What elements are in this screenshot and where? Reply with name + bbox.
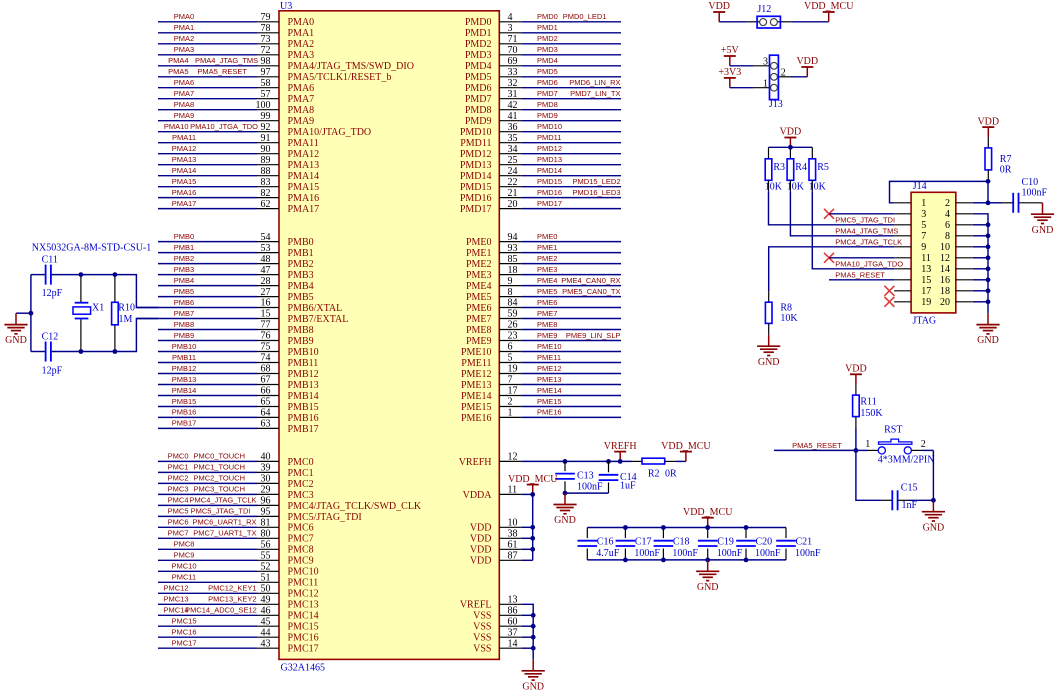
power port VDD <box>780 127 802 148</box>
svg-text:PMD7: PMD7 <box>537 89 558 98</box>
svg-text:100: 100 <box>256 100 271 111</box>
svg-text:PMC0: PMC0 <box>168 452 189 461</box>
svg-text:1: 1 <box>508 408 513 419</box>
svg-text:94: 94 <box>508 232 518 243</box>
svg-text:PME6: PME6 <box>466 303 492 314</box>
svg-text:PME8: PME8 <box>466 325 492 336</box>
svg-text:VDD_MCU: VDD_MCU <box>661 441 711 452</box>
svg-text:PME2: PME2 <box>466 259 492 270</box>
svg-text:9: 9 <box>921 242 926 253</box>
svg-text:75: 75 <box>261 342 271 353</box>
svg-text:C21: C21 <box>796 537 813 548</box>
ground GND symbol <box>922 500 945 533</box>
svg-text:PMC1: PMC1 <box>288 468 314 479</box>
svg-text:PME4: PME4 <box>537 276 557 285</box>
wire J14 even pins ground bus <box>973 203 988 313</box>
svg-text:PME16: PME16 <box>537 408 562 417</box>
U3 left pin 64 (PMB16) with wire and net label <box>158 408 319 424</box>
svg-text:84: 84 <box>508 298 518 309</box>
svg-text:C20: C20 <box>756 537 773 548</box>
U3 right pin 87 (VDD) with wire <box>470 551 521 567</box>
svg-text:PMD1: PMD1 <box>465 28 492 39</box>
svg-text:87: 87 <box>508 551 518 562</box>
junction dots VREFH net <box>563 459 623 464</box>
svg-text:69: 69 <box>508 56 518 67</box>
svg-text:PMA13: PMA13 <box>172 155 197 164</box>
push button RST pin numbers <box>865 439 926 450</box>
U3 right pin 23 (PME9) with wire <box>466 331 621 347</box>
svg-text:PMD16_LED3: PMD16_LED3 <box>573 188 621 197</box>
svg-text:PMB11: PMB11 <box>288 358 319 369</box>
svg-text:64: 64 <box>261 408 271 419</box>
svg-text:7: 7 <box>508 375 513 386</box>
svg-text:PMD5: PMD5 <box>465 72 492 83</box>
svg-text:PMA13: PMA13 <box>288 160 320 171</box>
svg-text:40: 40 <box>261 452 271 463</box>
wire VSS ground bus <box>521 604 533 659</box>
U3 right pin 24 (PMD14) with wire <box>460 166 621 182</box>
wire C14 bottom to C13 bottom <box>565 492 609 494</box>
svg-text:9: 9 <box>508 276 513 287</box>
U3 left pin 16 (PMB6/XTAL) with wire and net label <box>136 298 342 314</box>
svg-text:PMA2: PMA2 <box>174 34 194 43</box>
svg-text:VDD: VDD <box>708 1 730 12</box>
power port VDD <box>708 1 730 22</box>
svg-text:PME6: PME6 <box>537 298 557 307</box>
svg-text:17: 17 <box>508 386 518 397</box>
U3 right pin 5 (PME11) with wire <box>461 353 621 369</box>
svg-text:PMC3: PMC3 <box>168 485 189 494</box>
wire capacitor bank top bus <box>587 527 786 529</box>
U3 left pin 43 (PMC17) with wire and net label <box>158 638 319 654</box>
U3 right pin 86 (VSS) with wire <box>473 606 521 622</box>
svg-text:66: 66 <box>261 386 271 397</box>
svg-text:1uF: 1uF <box>620 480 636 491</box>
wire J12 to VDD_MCU <box>791 21 829 23</box>
U3 right pin 14 (VSS) with wire <box>473 638 521 654</box>
svg-text:GND: GND <box>5 335 27 346</box>
svg-text:PMA10_JTGA_TDO: PMA10_JTGA_TDO <box>835 260 903 269</box>
U3 left pin 88 (PMA14) with wire and net label <box>158 166 319 182</box>
svg-text:72: 72 <box>261 45 271 56</box>
svg-text:14: 14 <box>940 264 950 275</box>
svg-text:PMA0: PMA0 <box>288 17 315 28</box>
svg-text:PMB7: PMB7 <box>174 309 194 318</box>
U3 right pin 41 (PMD9) with wire <box>465 111 621 127</box>
svg-text:PMA3: PMA3 <box>174 45 194 54</box>
svg-text:70: 70 <box>508 45 518 56</box>
U3 right pin 70 (PMD3) with wire <box>465 45 621 61</box>
svg-text:PMD5: PMD5 <box>537 67 558 76</box>
svg-text:17: 17 <box>921 286 931 297</box>
svg-text:PMD3: PMD3 <box>537 45 558 54</box>
svg-text:GND: GND <box>758 357 780 368</box>
svg-text:100nF: 100nF <box>672 548 698 559</box>
svg-text:PME1: PME1 <box>537 243 557 252</box>
svg-text:100nF: 100nF <box>795 548 821 559</box>
svg-text:VDD: VDD <box>977 116 999 127</box>
wire R7 to J14 pins 1 2 and C10 <box>988 181 1002 203</box>
svg-text:C11: C11 <box>42 255 58 266</box>
capacitor C17 body <box>616 528 636 560</box>
svg-text:VDD_MCU: VDD_MCU <box>508 474 558 485</box>
svg-text:PMA14: PMA14 <box>172 166 197 175</box>
resistor R8 body <box>765 291 772 335</box>
svg-text:PMA8: PMA8 <box>174 100 194 109</box>
svg-text:77: 77 <box>261 320 271 331</box>
U3 left pin 67 (PMB13) with wire and net label <box>158 375 319 391</box>
svg-text:PMA9: PMA9 <box>174 111 194 120</box>
svg-text:78: 78 <box>261 23 271 34</box>
wire R11 to reset node <box>855 428 857 451</box>
svg-text:PMA5/TCLK1/RESET_b: PMA5/TCLK1/RESET_b <box>288 72 392 83</box>
svg-text:49: 49 <box>261 595 271 606</box>
svg-text:97: 97 <box>261 67 271 78</box>
svg-text:PMC0: PMC0 <box>288 457 314 468</box>
svg-text:10K: 10K <box>809 181 827 192</box>
svg-text:PMD11: PMD11 <box>460 138 491 149</box>
svg-text:48: 48 <box>261 254 271 265</box>
U3 right pin 37 (VSS) with wire <box>473 627 521 643</box>
svg-text:PMB2: PMB2 <box>174 254 194 263</box>
svg-text:GND: GND <box>1032 225 1054 236</box>
U3 left pin 15 (PMB7/EXTAL) with wire and net label <box>136 309 348 325</box>
svg-text:16: 16 <box>940 275 950 286</box>
resistor R7 body <box>985 137 992 181</box>
svg-text:PMC12: PMC12 <box>163 584 188 593</box>
svg-text:13: 13 <box>921 264 931 275</box>
svg-text:PME5_CAN0_TX: PME5_CAN0_TX <box>562 287 620 296</box>
svg-text:PMC4_JTAG_TCLK: PMC4_JTAG_TCLK <box>190 496 257 505</box>
U3 left pin 47 (PMB3) with wire and net label <box>158 265 314 281</box>
U3 right pin 69 (PMD4) with wire <box>465 56 621 72</box>
svg-text:PMD10: PMD10 <box>537 122 562 131</box>
svg-text:90: 90 <box>261 144 271 155</box>
svg-text:VDD_MCU: VDD_MCU <box>683 507 733 518</box>
svg-text:10K: 10K <box>787 181 805 192</box>
svg-text:1: 1 <box>763 78 768 89</box>
wire J14 pin1 loop to VDD node <box>890 181 989 202</box>
no-ERC cross J14 pin17 <box>884 286 894 296</box>
U3 right pin 10 (VDD) with wire <box>470 518 521 534</box>
U3 right pin 26 (PME8) with wire <box>466 320 621 336</box>
svg-text:12: 12 <box>508 452 518 463</box>
U3 left pin 91 (PMA11) with wire and net label <box>158 133 319 149</box>
svg-text:VDD: VDD <box>470 556 492 567</box>
svg-text:PMA14: PMA14 <box>288 171 320 182</box>
svg-text:PMC15: PMC15 <box>171 617 196 626</box>
U3 left pin 72 (PMA3) with wire and net label <box>158 45 314 61</box>
U3 left pin 48 (PMB2) with wire and net label <box>158 254 314 270</box>
U3 left pin 75 (PMB10) with wire and net label <box>158 342 319 358</box>
svg-text:PMD11: PMD11 <box>537 133 561 142</box>
svg-text:PMA5_RESET: PMA5_RESET <box>197 67 247 76</box>
svg-text:PMD12: PMD12 <box>537 144 562 153</box>
svg-text:19: 19 <box>921 297 931 308</box>
U3 right pin 21 (PMD16) with wire <box>460 188 621 204</box>
svg-text:PME0: PME0 <box>537 232 557 241</box>
svg-text:PMC8: PMC8 <box>174 540 195 549</box>
svg-text:32: 32 <box>508 78 518 89</box>
svg-text:52: 52 <box>261 562 271 573</box>
svg-text:12: 12 <box>940 253 950 264</box>
wire GND stub <box>16 312 31 314</box>
svg-text:PMD13: PMD13 <box>460 160 492 171</box>
svg-text:PMA5: PMA5 <box>168 67 188 76</box>
svg-text:PMA2: PMA2 <box>288 39 315 50</box>
svg-text:1: 1 <box>921 198 926 209</box>
svg-text:PME9: PME9 <box>466 336 492 347</box>
svg-text:100nF: 100nF <box>1022 188 1048 199</box>
svg-text:2: 2 <box>945 198 950 209</box>
svg-text:89: 89 <box>261 155 271 166</box>
power port +3V3 <box>718 67 741 88</box>
svg-text:28: 28 <box>261 276 271 287</box>
capacitor C14 body <box>599 461 619 493</box>
svg-text:PMC9: PMC9 <box>174 551 195 560</box>
svg-text:0R: 0R <box>665 468 677 479</box>
power port VREFH <box>604 441 637 462</box>
svg-text:51: 51 <box>261 573 271 584</box>
wire capacitor bank bottom bus <box>587 559 786 561</box>
U3 left pin 45 (PMC15) with wire and net label <box>158 616 319 632</box>
svg-text:8: 8 <box>508 287 513 298</box>
U3 right pin 7 (PME13) with wire <box>461 375 621 391</box>
svg-text:PMB5: PMB5 <box>174 287 194 296</box>
svg-text:61: 61 <box>508 540 518 551</box>
svg-text:PME2: PME2 <box>537 254 557 263</box>
no-ERC cross J14 pin11 <box>824 253 834 263</box>
svg-text:+3V3: +3V3 <box>718 67 741 78</box>
svg-text:PMA17: PMA17 <box>288 204 320 215</box>
wire XTAL bottom rail <box>31 351 45 353</box>
svg-text:PMA5_RESET: PMA5_RESET <box>835 271 885 280</box>
ground GND symbol <box>4 313 27 346</box>
capacitor C18 body <box>654 528 674 560</box>
svg-text:NX5032GA-8M-STD-CSU-1: NX5032GA-8M-STD-CSU-1 <box>32 242 151 253</box>
svg-text:59: 59 <box>508 309 518 320</box>
svg-text:PMD16: PMD16 <box>460 193 492 204</box>
svg-text:PMD12: PMD12 <box>460 149 492 160</box>
svg-text:VDD: VDD <box>470 545 492 556</box>
svg-text:PMC16: PMC16 <box>171 628 196 637</box>
junction dot C15 right <box>931 498 936 503</box>
power port VDD_MCU <box>508 474 558 495</box>
U3 right pin 42 (PMD8) with wire <box>465 100 621 116</box>
U3 left pin 80 (PMC7) with wire and net label <box>158 529 314 545</box>
svg-text:PMA15: PMA15 <box>288 182 320 193</box>
connector J13 body <box>753 55 791 99</box>
U3 left pin 89 (PMA13) with wire and net label <box>158 155 319 171</box>
U3 left pin 63 (PMB17) with wire and net label <box>158 419 319 435</box>
svg-text:PMC9: PMC9 <box>288 556 314 567</box>
wire XTAL top rail <box>31 274 45 276</box>
svg-text:88: 88 <box>261 166 271 177</box>
wire +5V to J13 pin3 <box>730 65 753 67</box>
svg-text:R4: R4 <box>795 162 807 173</box>
resistor R10 body <box>112 275 119 352</box>
svg-text:PMC7: PMC7 <box>288 534 314 545</box>
svg-text:PMD6: PMD6 <box>465 83 492 94</box>
svg-text:R10: R10 <box>118 303 135 314</box>
capacitor C10 body <box>1002 193 1043 213</box>
U3 right pin 12 (VREFH) with wire <box>459 452 522 468</box>
svg-text:PMD7: PMD7 <box>465 94 492 105</box>
resistor R5 body <box>809 147 816 191</box>
svg-text:VSS: VSS <box>473 644 491 655</box>
ground GND symbol <box>1031 203 1054 236</box>
U3 left pin 66 (PMB14) with wire and net label <box>158 386 319 402</box>
svg-text:18: 18 <box>508 265 518 276</box>
svg-text:35: 35 <box>508 133 518 144</box>
svg-text:7: 7 <box>921 231 926 242</box>
power port VDD <box>796 56 818 77</box>
power port +5V <box>721 45 740 66</box>
svg-text:PMD4: PMD4 <box>537 56 558 65</box>
power port VDD_MCU <box>683 507 733 528</box>
U3 left pin 74 (PMB11) with wire and net label <box>158 353 318 369</box>
U3 right pin 18 (PME3) with wire <box>466 265 621 281</box>
svg-text:PMC2: PMC2 <box>288 479 314 490</box>
svg-text:PMC5/JTAG_TDI: PMC5/JTAG_TDI <box>288 512 362 523</box>
junction dot R7 bottom <box>986 179 991 184</box>
U3 left pin 50 (PMC12) with wire and net label <box>158 584 319 600</box>
crystal X1 body <box>73 275 91 352</box>
svg-text:67: 67 <box>261 375 271 386</box>
U3 left pin 56 (PMC8) with wire and net label <box>158 540 314 556</box>
svg-text:58: 58 <box>261 78 271 89</box>
svg-text:PMC7: PMC7 <box>168 529 189 538</box>
U3 right pin 25 (PMD13) with wire <box>460 155 621 171</box>
svg-text:PMD3: PMD3 <box>465 50 492 61</box>
svg-text:22: 22 <box>508 177 518 188</box>
junction dot J14 pin2 node <box>986 200 991 205</box>
svg-text:PMA12: PMA12 <box>288 149 320 160</box>
svg-text:1: 1 <box>865 439 870 450</box>
svg-text:PMC12_KEY1: PMC12_KEY1 <box>208 584 256 593</box>
svg-text:36: 36 <box>508 122 518 133</box>
junction dots VDD bus <box>530 492 535 552</box>
svg-text:46: 46 <box>261 606 271 617</box>
U3 right pin 8 (PME5) with wire <box>466 287 621 303</box>
U3 left pin 54 (PMB0) with wire and net label <box>158 232 314 248</box>
svg-text:20: 20 <box>940 297 950 308</box>
svg-text:100nF: 100nF <box>634 548 660 559</box>
svg-text:C18: C18 <box>673 537 690 548</box>
U3 right pin 20 (PMD17) with wire <box>460 199 621 215</box>
power port VDD_MCU <box>661 441 711 462</box>
svg-text:41: 41 <box>508 111 518 122</box>
svg-text:PMD9: PMD9 <box>465 116 492 127</box>
svg-text:29: 29 <box>261 485 271 496</box>
wire VDD rail over R3 R4 R5 <box>769 146 813 148</box>
svg-text:PME3: PME3 <box>466 270 492 281</box>
svg-text:38: 38 <box>508 529 518 540</box>
svg-text:PMA17: PMA17 <box>172 199 197 208</box>
junction dot C13 bottom <box>563 491 568 496</box>
svg-text:PMB12: PMB12 <box>288 369 319 380</box>
capacitor C15 body <box>881 490 908 510</box>
svg-text:63: 63 <box>261 419 271 430</box>
svg-text:PMD15_LED2: PMD15_LED2 <box>573 177 621 186</box>
svg-text:PMB17: PMB17 <box>172 419 197 428</box>
svg-text:PMC1: PMC1 <box>168 463 189 472</box>
svg-text:PMC5_JTAG_TDI: PMC5_JTAG_TDI <box>835 216 895 225</box>
svg-text:VDD: VDD <box>796 56 818 67</box>
wire VDD to J12 <box>719 21 747 23</box>
svg-text:PME12: PME12 <box>537 364 562 373</box>
U3 right pin 9 (PME4) with wire <box>466 276 621 292</box>
U3 left pin 83 (PMA15) with wire and net label <box>158 177 319 193</box>
wire J14 pin9 to R8 net PMC4_JTAG_TCLK <box>769 247 894 291</box>
svg-text:76: 76 <box>261 331 271 342</box>
resistor R4 body <box>787 147 794 191</box>
svg-text:PMC11: PMC11 <box>172 573 196 582</box>
U3 right pin 59 (PME7) with wire <box>466 309 621 325</box>
svg-text:PME4: PME4 <box>466 281 492 292</box>
svg-text:2: 2 <box>921 439 926 450</box>
svg-text:R7: R7 <box>1000 154 1012 165</box>
svg-text:PME10: PME10 <box>461 347 492 358</box>
U3 left pin 51 (PMC11) with wire and net label <box>158 573 318 589</box>
svg-text:PMD16: PMD16 <box>537 188 562 197</box>
svg-text:8: 8 <box>945 231 950 242</box>
junction dot VDD rail <box>788 145 793 150</box>
U3 left pin 79 (PMA0) with wire and net label <box>158 12 314 28</box>
svg-text:PME9_LIN_SLP: PME9_LIN_SLP <box>566 331 621 340</box>
svg-text:GND: GND <box>522 681 544 692</box>
svg-text:PMA3: PMA3 <box>288 50 315 61</box>
capacitor C21 body <box>776 528 796 560</box>
svg-text:71: 71 <box>508 34 518 45</box>
U3 left pin 78 (PMA1) with wire and net label <box>158 23 314 39</box>
svg-text:85: 85 <box>508 254 518 265</box>
junction dots VSS bus <box>531 613 536 651</box>
wire +3V3 to J13 pin1 <box>730 87 753 89</box>
capacitor C16 body <box>578 528 598 560</box>
svg-text:VREFL: VREFL <box>460 600 492 611</box>
svg-text:PMB7/EXTAL: PMB7/EXTAL <box>288 314 349 325</box>
svg-text:21: 21 <box>508 188 518 199</box>
U3 right pin 11 (VDDA) with wire <box>463 485 522 501</box>
svg-text:0R: 0R <box>1000 165 1012 176</box>
svg-text:PMA6: PMA6 <box>288 83 315 94</box>
svg-text:PMC10: PMC10 <box>288 567 319 578</box>
U3 left pin 96 (PMC4/JTAG_TCLK/SWD_CLK) with wire and net label <box>158 496 422 512</box>
svg-text:34: 34 <box>508 144 518 155</box>
U3 left pin 98 (PMA4/JTAG_TMS/SWD_DIO) with wire and net label <box>158 56 414 72</box>
U3 left pin 73 (PMA2) with wire and net label <box>158 34 314 50</box>
svg-text:150K: 150K <box>860 408 883 419</box>
svg-text:62: 62 <box>261 199 271 210</box>
svg-text:PMB1: PMB1 <box>288 248 314 259</box>
svg-text:80: 80 <box>261 529 271 540</box>
svg-text:PMD15: PMD15 <box>537 177 562 186</box>
svg-text:6: 6 <box>508 342 513 353</box>
svg-text:PMD6: PMD6 <box>537 78 558 87</box>
svg-text:3: 3 <box>508 23 513 34</box>
svg-text:PMA7: PMA7 <box>174 89 194 98</box>
U3 right pin 1 (PME16) with wire <box>461 408 621 424</box>
svg-text:10K: 10K <box>780 313 798 324</box>
svg-text:1nF: 1nF <box>902 500 918 511</box>
U3 right pin 84 (PME6) with wire <box>466 298 621 314</box>
svg-text:3: 3 <box>763 57 768 68</box>
svg-text:PMD15: PMD15 <box>460 182 492 193</box>
U3 right pin 17 (PME14) with wire <box>461 386 621 402</box>
U3 left pin 44 (PMC16) with wire and net label <box>158 627 319 643</box>
svg-text:PMC2_TOUCH: PMC2_TOUCH <box>193 474 245 483</box>
